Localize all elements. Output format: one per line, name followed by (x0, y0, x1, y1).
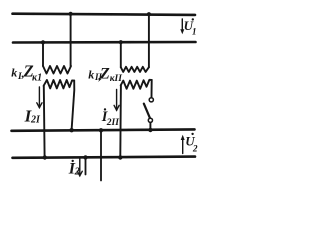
label kII,ZkII (88, 66, 122, 85)
current arrow I2 (down) (79, 159, 81, 176)
wire vD: L1 down to winding II primary right end (crosses L2) (148, 14, 150, 67)
svg-text:кII: кII (110, 74, 123, 84)
junction dot on L3 at load feeder B (99, 128, 103, 132)
label U2 voltage (185, 133, 198, 155)
crossing blob on L4 at load feeder B (99, 156, 102, 159)
switch blade (open) (144, 104, 150, 119)
wire vA: L2 down to winding I primary left end (42, 42, 44, 66)
bus line L2 (network U1 lower conductor) (13, 41, 196, 44)
voltage arrow U1 (down) (181, 19, 183, 31)
svg-text:2: 2 (192, 145, 198, 155)
wire: winding II secondary right stub down to switch top (151, 80, 153, 98)
bus line L4 (network U2 lower conductor) (13, 157, 196, 158)
svg-text:Z: Z (99, 66, 110, 83)
junction dot on L4 at load feeder A (83, 155, 87, 159)
wire: winding II secondary left stub down to L4 (crosses L3) (119, 85, 122, 157)
junction dot on L3 at winding I right stub (69, 128, 73, 132)
svg-text:k: k (11, 66, 17, 80)
current arrow I2II (down) (116, 89, 118, 110)
svg-text:2II: 2II (106, 118, 119, 128)
svg-text:к1: к1 (32, 72, 42, 83)
wire vC: L2 down to winding II primary left end (120, 42, 122, 67)
bus line L3 (network U2 upper conductor) (12, 129, 195, 130)
label I2II (current of transformer II) (101, 108, 119, 128)
voltage arrow U2 (up) (182, 140, 184, 154)
wire: switch bottom to L3 (149, 123, 151, 131)
junction dot on L3 at switch wire (148, 128, 152, 132)
wire vB: L1 down to winding I primary right end (crosses L2) (70, 14, 72, 66)
resistor winding II secondary (zigzag) (121, 80, 152, 89)
label kI,ZkI (11, 62, 42, 84)
junction dot on L2 at vA (41, 40, 45, 44)
wire: winding I secondary right stub down to L3 (72, 81, 75, 130)
svg-text:k: k (88, 68, 94, 82)
arrowhead of U2 arrow (181, 135, 185, 140)
load feeder A from L4 down (85, 158, 87, 175)
load feeder B from L3 down (crosses L4) (100, 131, 102, 181)
svg-text:1: 1 (192, 26, 197, 36)
junction dot on L4 at winding II left stub (118, 155, 122, 159)
wire: winding I secondary left stub down to L4 (crosses L3) (43, 86, 46, 157)
resistor winding I primary (zigzag) (43, 66, 71, 74)
label I2I (current of transformer I) (24, 107, 41, 126)
arrowhead of U1 arrow (180, 29, 184, 34)
junction dot on L1 at vB (69, 12, 73, 16)
switch lower contact circle (148, 118, 152, 122)
svg-text:2: 2 (74, 166, 81, 177)
junction dot on L2 at vC (119, 40, 123, 44)
junction dot on L4 at winding I left stub (43, 155, 47, 159)
bus line L1 (network U1 upper conductor) (13, 14, 196, 15)
resistor winding I secondary (zigzag) (44, 80, 75, 88)
switch upper contact circle (149, 98, 153, 102)
label U1 voltage (184, 18, 197, 37)
svg-text:2I: 2I (30, 114, 41, 125)
resistor winding II primary (zigzag) (121, 67, 149, 72)
current arrow I2I (down) (38, 87, 40, 108)
junction dot on L1 at vD (147, 12, 151, 16)
label I2 (load current) (68, 160, 81, 178)
